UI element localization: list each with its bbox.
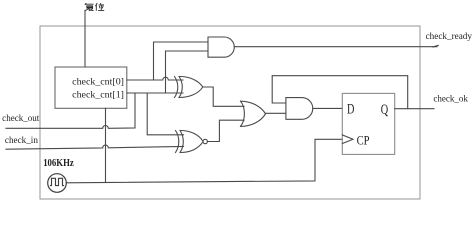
- svg-text:Q: Q: [381, 102, 389, 118]
- svg-text:check_cnt[1]: check_cnt[1]: [72, 90, 124, 100]
- svg-text:check_cnt[0]: check_cnt[0]: [72, 77, 124, 87]
- svg-text:check_in: check_in: [5, 135, 39, 145]
- svg-text:106KHz: 106KHz: [43, 158, 74, 169]
- svg-text:CP: CP: [357, 134, 370, 148]
- svg-text:D: D: [347, 102, 355, 118]
- svg-text:check_out: check_out: [2, 113, 40, 123]
- svg-text:check_ok: check_ok: [433, 94, 468, 104]
- svg-text:check_ready: check_ready: [426, 31, 473, 41]
